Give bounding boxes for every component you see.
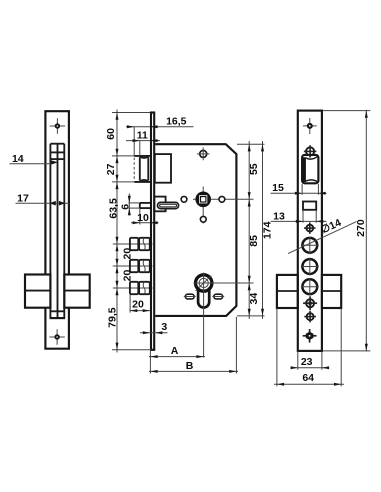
- faceplate outline (front view): [45, 111, 69, 274]
- latch head box horizontals: [50, 143, 64, 145]
- svg-text:174: 174: [262, 221, 274, 239]
- dimension 15: [271, 192, 327, 194]
- dimension 23: [297, 352, 299, 370]
- faceplate outline (face view): [298, 111, 322, 351]
- deadbolt stub 3: [130, 282, 138, 294]
- latch slot bottom line: [134, 181, 150, 183]
- deadbolt stub 1 centerline: [113, 243, 153, 245]
- left dimension chain line: [116, 110, 118, 353]
- top hole circle: [200, 150, 207, 157]
- deadbolt block left: [277, 275, 298, 308]
- dimension 13: [302, 210, 304, 223]
- dimension 3: [140, 332, 168, 334]
- svg-text:64: 64: [302, 372, 314, 384]
- dimension 10: [131, 222, 159, 224]
- dimension 15 extension lines: [301, 184, 303, 195]
- extension line below plate: [149, 351, 151, 374]
- svg-text:55: 55: [248, 163, 260, 175]
- deadbolt block right: [322, 275, 341, 308]
- svg-text:34: 34: [248, 293, 260, 305]
- RIGHT VIEW GROUP: [271, 110, 371, 387]
- small cross hole lower: [307, 313, 314, 320]
- svg-text:20: 20: [121, 270, 133, 282]
- snib pin left of plate: [140, 202, 151, 204]
- euro cylinder keyway slot: [198, 288, 209, 308]
- svg-text:27: 27: [105, 163, 117, 175]
- ringed hole: [306, 299, 314, 307]
- left chain extension latch top: [112, 155, 134, 157]
- deadbolt stub 3 centerline: [113, 287, 153, 289]
- svg-text:15: 15: [272, 182, 284, 194]
- diameter 14 hole 2: [302, 259, 317, 274]
- dimension 20 horizontal: [130, 310, 151, 312]
- left chain extension latch bottom: [112, 181, 134, 183]
- right chain extension case top: [237, 143, 265, 145]
- case outline with chamfered corners: [155, 144, 236, 316]
- follower crosshair: [193, 198, 254, 200]
- diameter leader line: [288, 222, 357, 254]
- svg-text:10: 10: [137, 212, 149, 224]
- svg-text:20: 20: [121, 248, 133, 260]
- cylinder centerlines: [194, 282, 254, 284]
- snib lever block: [154, 197, 165, 212]
- svg-text:A: A: [171, 345, 179, 357]
- svg-text:16,5: 16,5: [166, 116, 187, 128]
- svg-text:63,5: 63,5: [107, 198, 119, 219]
- small circle right of follower: [219, 196, 225, 202]
- bottom screw hole: [56, 329, 58, 345]
- euro cylinder circle: [196, 275, 212, 291]
- dimension 6: [128, 202, 140, 204]
- deadbolt stub 2 centerline: [113, 265, 153, 267]
- small rectangular hole: [303, 202, 316, 210]
- svg-text:14: 14: [12, 153, 24, 165]
- top screw hole: [309, 118, 311, 134]
- MIDDLE VIEW DIMENSIONS GROUP: [105, 110, 273, 374]
- top screw hole: [56, 118, 58, 134]
- deadbolt block right: [64, 275, 89, 308]
- svg-text:11: 11: [137, 129, 148, 141]
- faceplate edge double line: [150, 113, 152, 350]
- snib lever bar: [158, 202, 179, 208]
- small circle below follower: [200, 216, 206, 222]
- diameter 14 hole 3: [302, 279, 317, 294]
- dimension 64: [276, 309, 278, 387]
- svg-text:B: B: [186, 360, 194, 372]
- upper cross hole: [306, 147, 314, 155]
- svg-text:3: 3: [161, 321, 167, 333]
- left chain extension plate top: [112, 112, 150, 114]
- dimension 270: [323, 110, 370, 112]
- svg-text:85: 85: [248, 235, 260, 247]
- svg-text:17: 17: [17, 192, 29, 204]
- deadbolt stub 1: [130, 238, 138, 250]
- retracted bolt dashed line: [133, 127, 135, 156]
- bottom screw hole: [309, 329, 311, 343]
- fixing oval left: [185, 294, 194, 299]
- deadbolt block left: [25, 275, 50, 308]
- svg-text:20: 20: [132, 299, 144, 311]
- lock case strip verticals: [49, 144, 51, 318]
- left chain extension plate bottom: [112, 349, 151, 351]
- svg-text:79,5: 79,5: [107, 307, 119, 328]
- svg-text:270: 270: [355, 219, 367, 237]
- deadbolt stub 2: [130, 260, 138, 272]
- square follower hub: [195, 192, 211, 208]
- small circle left of follower: [181, 196, 187, 202]
- MIDDLE VIEW GROUP: [113, 113, 254, 358]
- fixing oval right: [214, 294, 223, 299]
- diameter 14 hole 1: [302, 238, 317, 253]
- dimension A: [149, 356, 205, 358]
- label 14 leader: [10, 163, 52, 165]
- dimension 16,5: [126, 126, 194, 128]
- dimension 11: [126, 140, 160, 142]
- dimension 174 line: [262, 141, 264, 319]
- svg-text:6: 6: [120, 204, 132, 210]
- svg-text:23: 23: [301, 356, 313, 368]
- svg-text:60: 60: [105, 128, 117, 140]
- latch bolt head: [139, 157, 141, 180]
- deadbolt tail box horizontals: [50, 310, 64, 312]
- right chain 55-85-34 line: [248, 141, 250, 319]
- latch cutout: [302, 155, 318, 183]
- label 17 dimension: [16, 202, 70, 204]
- extension line below case right: [235, 317, 237, 374]
- latch slot top line: [134, 155, 150, 157]
- LEFT VIEW GROUP: [10, 111, 90, 349]
- dimension B: [149, 370, 238, 372]
- latch housing box: [155, 154, 171, 183]
- right chain extension case bottom: [237, 315, 265, 317]
- small cross hole: [306, 225, 313, 232]
- svg-text:13: 13: [273, 210, 285, 222]
